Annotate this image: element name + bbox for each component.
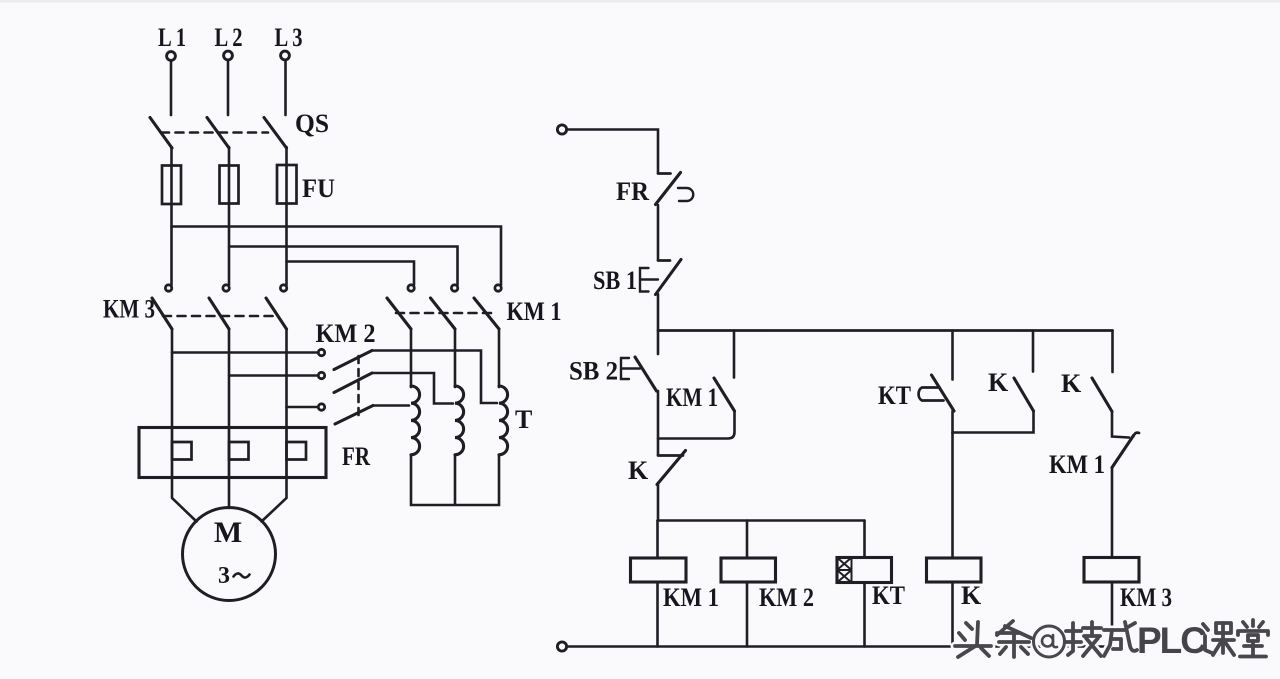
- contactor KM1 main contact 3: [474, 285, 501, 329]
- fuse FU pole 2: [220, 165, 239, 204]
- svg-text:KM 1: KM 1: [663, 583, 719, 612]
- contactor KM3 main contact 1: [152, 285, 172, 329]
- svg-text:KT: KT: [878, 381, 911, 410]
- svg-text:KT: KT: [872, 581, 905, 610]
- wire KM3-3 down to FR: [285, 329, 288, 428]
- svg-text:L 1: L 1: [158, 23, 186, 52]
- wire KT coil drop: [863, 521, 866, 558]
- wire QS3 to fuse3: [285, 147, 288, 166]
- wire KM1 coil drop: [656, 521, 659, 559]
- transformer T coil 2: [455, 386, 464, 455]
- wire phase B branch to KM1 bank: [229, 247, 458, 286]
- transformer T coil 1: [411, 386, 420, 455]
- wire FR to motor mid: [228, 478, 231, 509]
- svg-text:K: K: [961, 581, 982, 610]
- hanzi tou: [955, 622, 991, 657]
- contact K (NO) parallel with KT: [1032, 331, 1035, 372]
- wire top feed: [567, 130, 658, 174]
- wire KT contact down: [951, 411, 954, 433]
- hanzi cheng: [1104, 622, 1137, 656]
- svg-text:KM 2: KM 2: [316, 319, 376, 348]
- at sign: [1034, 626, 1065, 657]
- svg-text:KM 3: KM 3: [1120, 583, 1172, 612]
- wire QS1 to fuse1: [170, 147, 173, 166]
- hanzi ke: [1203, 623, 1234, 655]
- coil K: [927, 558, 982, 582]
- hanzi tiao: [997, 621, 1031, 657]
- contactor KM3 main contact 3: [266, 285, 287, 329]
- svg-text:PLC: PLC: [1137, 620, 1206, 661]
- wire transformer star bus: [411, 455, 499, 505]
- node L3 terminal: [281, 51, 290, 60]
- svg-text:T: T: [515, 405, 532, 434]
- transformer T coil 3: [499, 386, 508, 455]
- watermark 头条 @技成PLC课堂: [955, 620, 1268, 661]
- wire phase C branch to KM1 bank: [287, 262, 415, 286]
- wire junction to K coil: [951, 433, 954, 559]
- wire phase A fuse to KM3 contact (with branch corner): [170, 204, 173, 285]
- svg-text:SB 1: SB 1: [593, 266, 637, 295]
- svg-text:K: K: [628, 456, 649, 485]
- wire FR to motor left: [172, 478, 197, 522]
- svg-text:L 3: L 3: [275, 23, 303, 52]
- wire K coil to bottom bus: [951, 582, 954, 647]
- contactor KM2 contact 1: [318, 349, 372, 369]
- contactor KM2 contact 2: [318, 372, 372, 392]
- wire QS2 to fuse2: [228, 147, 231, 166]
- hanzi tou: [955, 622, 991, 657]
- node control bottom terminal: [557, 642, 566, 651]
- wire tap phase C to KM2 contact 3: [287, 406, 318, 409]
- at sign: [1034, 626, 1065, 657]
- coil KM1: [631, 558, 687, 582]
- svg-text:KM 3: KM 3: [103, 295, 155, 324]
- svg-text:QS: QS: [295, 109, 329, 138]
- wire KM3-1 down to FR: [171, 329, 174, 428]
- svg-text:KM 2: KM 2: [759, 583, 814, 612]
- pushbutton SB1 (NC): [640, 260, 681, 295]
- KM2 linkage dashed: [357, 356, 360, 419]
- svg-text:FR: FR: [342, 442, 370, 471]
- coil KT (timer) with X box: [837, 558, 892, 583]
- svg-text:KM 1: KM 1: [507, 297, 562, 326]
- hanzi ke: [1203, 623, 1234, 655]
- switch QS pole 3 blade: [264, 118, 287, 149]
- QS linkage dashed: [161, 131, 268, 134]
- wire phase C fuse to KM3 contact: [285, 204, 288, 286]
- wire K NO rejoin to KT branch: [953, 411, 1034, 433]
- motor M 3~: [183, 508, 276, 601]
- fuse FU pole 3: [277, 165, 297, 204]
- svg-text:FR: FR: [616, 177, 649, 206]
- wire KM2-1 to transformer coil 3 tap: [372, 351, 497, 404]
- contact K (NC) above KM1 coil: [657, 451, 686, 485]
- node L2 terminal: [224, 51, 233, 60]
- wire KM2 coil to bottom bus: [746, 582, 749, 647]
- wire KM1 contact to KM3 coil: [1111, 468, 1114, 558]
- contact KM1 aux (NO, self-hold): [714, 378, 735, 411]
- wire KM1-2 down to coil 2: [454, 329, 457, 387]
- wire SB2 to K contact: [657, 391, 660, 455]
- hanzi tang: [1238, 620, 1268, 657]
- wire KM2-3 to transformer coil 1 tap: [373, 404, 409, 407]
- coil KM3: [1084, 558, 1139, 583]
- svg-text:K: K: [1061, 369, 1082, 398]
- svg-text:KM 1: KM 1: [1049, 450, 1105, 479]
- node control top terminal: [557, 125, 566, 134]
- wire K to KM1 contact: [1112, 412, 1129, 438]
- svg-text:L 2: L 2: [215, 23, 243, 52]
- hanzi cheng: [1104, 622, 1137, 656]
- contact KM1 (NO, mirrored) for KM3 coil: [1112, 433, 1139, 468]
- KM3 linkage dashed: [163, 315, 278, 318]
- wire control top bus: [658, 329, 1113, 332]
- wire K contact to feeder: [657, 484, 660, 521]
- svg-text:3: 3: [218, 563, 230, 589]
- wire L1 down to QS: [170, 61, 173, 115]
- wire KM1 aux rejoin: [658, 411, 735, 439]
- wire branch KM1 aux lead: [733, 331, 736, 378]
- hanzi tiao: [997, 621, 1031, 657]
- FR NC contact (control): [656, 173, 694, 205]
- svg-text:KM 1: KM 1: [666, 383, 718, 412]
- wire FR to motor right: [262, 478, 287, 522]
- coil KM2: [721, 558, 776, 582]
- wire KM1-3 down to coil 3: [498, 329, 501, 387]
- svg-text:SB 2: SB 2: [569, 357, 618, 386]
- wire KM1-1 down to coil 1: [410, 329, 413, 387]
- contactor KM3 main contact 2: [209, 285, 229, 329]
- switch QS pole 2 blade: [207, 118, 229, 149]
- wire bottom bus: [567, 645, 1112, 648]
- pushbutton SB2 (NO): [621, 357, 657, 391]
- contactor KM2 contact 3: [318, 404, 373, 424]
- thermal relay FR heater box: [139, 428, 326, 478]
- wire phase A branch to KM1 bank: [172, 227, 502, 286]
- node L1 terminal: [167, 52, 176, 61]
- wire KM3 coil to bottom bus: [1111, 582, 1114, 647]
- wire FR to SB1: [657, 205, 660, 260]
- wire coil feeder: [658, 519, 865, 522]
- wire SB1 to bus: [657, 294, 660, 331]
- contactor KM1 main contact 2: [431, 285, 458, 329]
- svg-text:M: M: [214, 516, 242, 549]
- wire L3 down to QS: [284, 61, 287, 116]
- wire L2 down to QS: [227, 61, 230, 116]
- wire tap phase B to KM2 contact 2: [229, 374, 317, 377]
- watermark halo: [955, 620, 1268, 661]
- wire branch SB2 lead: [657, 331, 660, 355]
- KM1 main linkage dashed: [396, 312, 491, 315]
- svg-text:K: K: [988, 368, 1009, 397]
- wire KM2-2 to transformer coil 2 tap: [372, 373, 453, 404]
- wire KT coil to bottom bus: [863, 583, 866, 647]
- svg-text:FU: FU: [302, 174, 335, 203]
- contact KT (NC delayed) branch: [951, 331, 954, 380]
- contactor KM1 main contact 1: [387, 285, 414, 329]
- hanzi tang: [1238, 620, 1268, 657]
- wire KM2 coil drop: [746, 521, 749, 559]
- wire phase B fuse to KM3 contact: [228, 204, 231, 286]
- switch QS pole 1 blade: [150, 118, 172, 149]
- hanzi ji: [1066, 622, 1101, 656]
- wire KM1 coil to bottom bus: [656, 582, 659, 647]
- wire KM3-2 down to FR: [228, 329, 231, 428]
- hanzi ji: [1066, 622, 1101, 656]
- fuse FU pole 1: [162, 165, 181, 204]
- contact K (NO) right branch: [1111, 331, 1114, 373]
- wire tap phase A to KM2 contact 1: [172, 351, 317, 354]
